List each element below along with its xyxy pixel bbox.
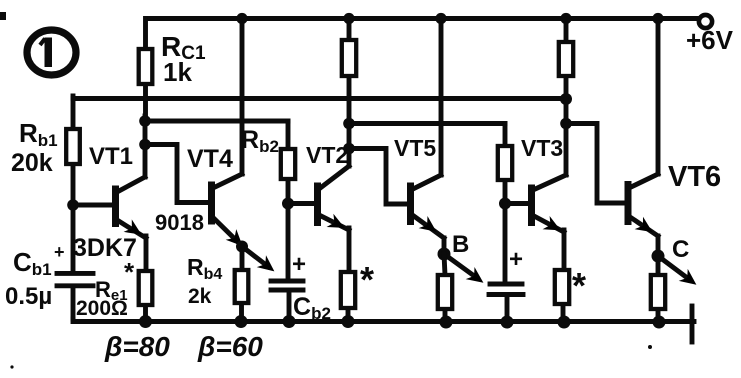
node stage2 y123: [343, 118, 355, 130]
svg-text:+: +: [509, 246, 523, 273]
transistor VT6: [628, 19, 701, 291]
transistor VT2: [318, 124, 350, 235]
node VT6 emitter ground: [653, 316, 666, 329]
wire VT1 base: [73, 203, 112, 208]
resistor VT6 emitter: [651, 256, 665, 322]
svg-text:VT5: VT5: [394, 135, 436, 161]
resistor VT2 emitter: [341, 228, 355, 322]
node VT3 base: [499, 198, 511, 210]
node stage3 cap ground: [501, 316, 514, 329]
svg-text:2k: 2k: [188, 285, 212, 308]
ground terminal bar: [690, 306, 695, 342]
svg-text:VT1: VT1: [89, 143, 133, 170]
wire interstage y123: [349, 121, 505, 126]
wire bias rail y98: [73, 96, 566, 99]
node bias rail end: [560, 93, 572, 105]
node top rail VT5: [435, 13, 446, 24]
wire VT5 base jog: [349, 149, 408, 205]
node top rail stage2: [343, 13, 354, 24]
resistor stage2 collector: [342, 19, 356, 124]
capacitor stage3: [489, 204, 523, 323]
node VT2 collector: [343, 143, 355, 155]
scan speck bottom center: [648, 345, 652, 349]
capacitor Cb2: [271, 204, 303, 322]
svg-text:+: +: [292, 251, 306, 278]
svg-text:B: B: [452, 231, 469, 258]
scan speck bottom left: [10, 365, 13, 368]
svg-text:*: *: [572, 265, 586, 306]
node VT3 collector: [560, 118, 572, 130]
svg-text:VT6: VT6: [668, 161, 721, 193]
svg-text:*: *: [360, 259, 374, 300]
node Rb4 ground: [235, 315, 248, 328]
svg-text:VT3: VT3: [521, 135, 563, 161]
node VT5 emitter ground: [440, 316, 453, 329]
svg-text:C: C: [672, 236, 689, 263]
resistor stage3 collector: [559, 19, 573, 100]
node VT1 base: [67, 199, 79, 211]
svg-text:*: *: [124, 257, 135, 287]
node top rail VT6: [652, 13, 663, 24]
wire VT2 base: [288, 201, 315, 206]
transistor VT1: [116, 116, 147, 241]
node Re1 ground: [139, 315, 152, 328]
scan speck left edge: [0, 12, 6, 20]
resistor Rb4: [235, 247, 249, 322]
node VT4 emitter: [236, 241, 248, 253]
svg-text:β=80: β=80: [104, 331, 170, 362]
resistor VT3 emitter: [555, 230, 569, 322]
wire +6V top supply rail: [146, 16, 698, 21]
node Cb2 ground: [283, 315, 296, 328]
node RC1 bottom / bias tap: [139, 115, 151, 127]
svg-text:0.5µ: 0.5µ: [5, 283, 52, 310]
wire ground bottom rail: [73, 319, 694, 322]
transistor VT3: [532, 99, 567, 237]
node VT2 emitter ground: [342, 315, 355, 328]
capacitor Cb1: [57, 205, 93, 319]
svg-text:200Ω: 200Ω: [76, 297, 128, 320]
resistor Rb1: [66, 99, 80, 206]
wire VT3 base: [505, 201, 529, 206]
node VT6 emitter / output C: [652, 250, 665, 263]
node VT1 collector: [139, 139, 151, 151]
svg-text:1k: 1k: [163, 57, 192, 87]
svg-text:+: +: [54, 242, 65, 262]
node top rail stage3: [560, 13, 571, 24]
node top rail VT4: [236, 13, 247, 24]
node VT5 emitter / output B: [438, 248, 451, 261]
resistor VT5 emitter: [438, 254, 452, 322]
transistor VT5: [411, 19, 488, 289]
svg-text:+6V: +6V: [686, 25, 734, 55]
svg-text:VT2: VT2: [306, 142, 348, 168]
wire VT6 base jog: [566, 124, 626, 204]
svg-text:9018: 9018: [155, 210, 204, 235]
wire VT4 base jog: [145, 145, 209, 203]
node VT2 base: [282, 198, 294, 210]
resistor stage3 base: [498, 124, 512, 204]
node VT3 emitter ground: [558, 316, 571, 329]
resistor Re1: [139, 236, 153, 322]
resistor Rb2: [281, 121, 295, 204]
terminal +6V: [699, 15, 712, 28]
transistor VT4: [212, 19, 279, 278]
badge circled 1: [27, 30, 76, 75]
svg-text:β=60: β=60: [197, 331, 263, 362]
wire interstage y121: [145, 119, 288, 124]
svg-text:20k: 20k: [11, 149, 53, 177]
resistor RC1: [139, 19, 153, 122]
svg-text:VT4: VT4: [187, 145, 233, 173]
